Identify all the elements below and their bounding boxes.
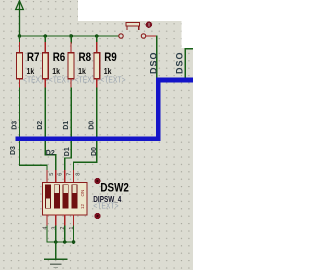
DIP switch DSW2 (43, 171, 88, 230)
svg-text:DSW2: DSW2 (100, 182, 128, 195)
svg-text:7: 7 (67, 173, 73, 176)
switch slot 4 (72, 185, 78, 209)
push button SW (top right) (119, 22, 157, 38)
pin 3 bottom stub (55, 215, 57, 226)
pin 4 bottom stub (46, 215, 48, 226)
wire: R8 column down to bus and to DIP pin 3 (net D1) (65, 88, 71, 171)
white area right edge (181, 0, 193, 48)
wire: pin 2 column to ground rail (64, 226, 66, 242)
svg-text:ON: ON (80, 190, 85, 197)
DIP body (43, 183, 88, 216)
pin 1 bottom stub (73, 215, 75, 226)
wire: ground rail (47, 241, 74, 243)
wire: pin 1 column to ground rail (73, 226, 75, 242)
svg-text:D3: D3 (10, 146, 17, 155)
svg-text:D0: D0 (91, 147, 98, 156)
svg-text:R6: R6 (53, 51, 66, 64)
wire: DSO net 1 (from button down to bus) (156, 36, 158, 79)
svg-text:R9: R9 (104, 51, 117, 64)
switch slot 2 (54, 185, 60, 209)
ground (45, 242, 67, 267)
svg-text:6: 6 (58, 173, 64, 176)
svg-text:R8: R8 (79, 51, 92, 64)
wire: top rail (20, 35, 119, 37)
svg-text:D0: D0 (89, 121, 96, 130)
marker dot (button) (146, 22, 152, 28)
wire: DSO net 2 (from right edge down to bus) (185, 49, 193, 79)
svg-text:R7: R7 (27, 51, 40, 64)
svg-text:D1: D1 (63, 121, 70, 130)
marker dot (DSW2 value) (94, 213, 100, 219)
power symbol (16, 1, 24, 36)
svg-text:D1: D1 (64, 147, 71, 156)
svg-text:12: 12 (80, 203, 85, 209)
resistor R7 (17, 36, 49, 88)
bus wire (thick blue) (18, 80, 193, 139)
switch slot 1 (45, 185, 51, 209)
marker dot (DSW2 ref) (94, 178, 100, 184)
pin 8 top stub (73, 171, 75, 183)
node junction dots on rail (18, 34, 99, 38)
switch slot 3 (63, 185, 69, 209)
svg-text:<TEXT>: <TEXT> (93, 201, 118, 211)
node junction dots on ground rail (54, 240, 75, 244)
wire: pin 3 column to ground rail (55, 226, 57, 242)
svg-text:D3: D3 (11, 121, 18, 130)
sheet background (0, 0, 193, 270)
wire: R6 column down to bus and to DIP pin 2 (net D2) (45, 88, 56, 171)
svg-text:D2: D2 (37, 121, 44, 130)
pin 5 top stub (46, 171, 48, 183)
svg-text:DSO: DSO (148, 51, 158, 74)
wire: R9 column down to bus and to DIP pin 4 (net D0) (74, 88, 97, 171)
pin 2 bottom stub (64, 215, 66, 226)
pin 6 top stub (55, 171, 57, 183)
white area top-right (78, 0, 193, 21)
svg-text:DSO: DSO (175, 51, 185, 74)
svg-text:5: 5 (49, 173, 55, 176)
svg-text:D2: D2 (46, 150, 55, 157)
wire: R7 column down to bus and to DIP pin 1 (net D3) (20, 88, 48, 171)
svg-text:<TEXT>: <TEXT> (100, 75, 125, 85)
resistor R9 (94, 36, 126, 88)
svg-text:8: 8 (75, 173, 81, 176)
wire: pin 4 column to ground rail (46, 226, 48, 242)
pin 7 top stub (64, 171, 66, 183)
resistor R6 (42, 36, 74, 88)
resistor R8 (68, 36, 100, 88)
